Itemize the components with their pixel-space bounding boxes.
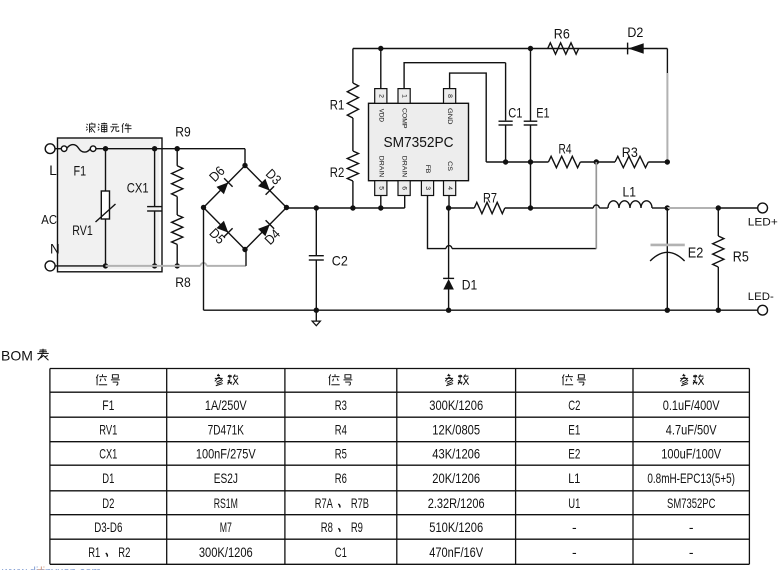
svg-text:C1: C1: [508, 105, 522, 120]
svg-text:C2: C2: [332, 253, 348, 269]
svg-text:470nF/16V: 470nF/16V: [429, 544, 483, 560]
svg-text:100uF/100V: 100uF/100V: [661, 446, 721, 462]
svg-text:5: 5: [377, 186, 384, 190]
svg-text:R9: R9: [175, 124, 191, 140]
svg-text:D3-D6: D3-D6: [94, 519, 122, 535]
svg-text:R8: R8: [321, 519, 333, 535]
svg-text:43K/1206: 43K/1206: [432, 446, 480, 462]
svg-text:6: 6: [401, 186, 408, 190]
svg-text:CX1: CX1: [127, 180, 149, 196]
svg-text:12K/0805: 12K/0805: [432, 422, 480, 438]
svg-text:AC: AC: [41, 212, 57, 227]
svg-text:1A/250V: 1A/250V: [205, 397, 247, 413]
svg-text:R7B: R7B: [351, 495, 369, 511]
svg-text:LED-: LED-: [748, 291, 774, 303]
svg-text:ES2J: ES2J: [214, 470, 238, 486]
svg-text:RV1: RV1: [99, 422, 117, 438]
svg-text:U1: U1: [568, 495, 580, 511]
svg-text:-: -: [572, 519, 577, 535]
svg-text:SM7352PC: SM7352PC: [384, 134, 454, 151]
svg-text:DRAIN: DRAIN: [401, 156, 408, 178]
svg-text:7D471K: 7D471K: [208, 422, 245, 438]
svg-text:L1: L1: [568, 470, 580, 486]
svg-text:2: 2: [377, 94, 384, 98]
svg-text:di: di: [36, 567, 45, 570]
svg-text:CS: CS: [446, 161, 453, 171]
svg-text:BOM: BOM: [1, 348, 33, 364]
svg-text:1: 1: [401, 94, 408, 98]
svg-text:L: L: [49, 163, 57, 178]
svg-text:R7A: R7A: [315, 495, 334, 511]
svg-text:C1: C1: [335, 544, 347, 560]
svg-text:R1: R1: [88, 544, 100, 560]
svg-text:R5: R5: [335, 446, 347, 462]
svg-text:8: 8: [446, 94, 453, 98]
svg-text:RV1: RV1: [72, 223, 93, 238]
svg-text:4: 4: [446, 186, 453, 190]
svg-text:LED+: LED+: [748, 217, 778, 229]
svg-text:F1: F1: [102, 397, 114, 413]
svg-text:-: -: [689, 544, 694, 560]
svg-text:-: -: [572, 544, 577, 560]
svg-text:R6: R6: [554, 26, 570, 42]
svg-text:DRAIN: DRAIN: [377, 156, 384, 178]
svg-text:D2: D2: [627, 24, 643, 40]
svg-text:R4: R4: [335, 422, 347, 438]
svg-text:4.7uF/50V: 4.7uF/50V: [666, 422, 717, 438]
svg-text:COMP: COMP: [401, 108, 408, 129]
svg-text:www.dianyuan.com: www.dianyuan.com: [1, 567, 101, 570]
svg-text:300K/1206: 300K/1206: [199, 544, 253, 560]
svg-text:3: 3: [424, 186, 431, 190]
svg-text:100nF/275V: 100nF/275V: [196, 446, 256, 462]
svg-text:C2: C2: [568, 397, 580, 413]
svg-text:R8: R8: [175, 274, 191, 290]
svg-text:D2: D2: [102, 495, 114, 511]
svg-text:510K/1206: 510K/1206: [429, 519, 483, 535]
svg-text:FB: FB: [424, 165, 431, 174]
svg-text:E1: E1: [568, 422, 580, 438]
svg-text:D1: D1: [462, 277, 478, 293]
svg-text:GND: GND: [446, 108, 453, 125]
svg-text:R1: R1: [330, 97, 345, 113]
svg-text:0.8mH-EPC13(5+5): 0.8mH-EPC13(5+5): [647, 470, 735, 486]
svg-text:R6: R6: [335, 470, 347, 486]
svg-text:VDD: VDD: [377, 109, 384, 123]
svg-text:R3: R3: [335, 397, 347, 413]
svg-text:L1: L1: [623, 184, 637, 200]
svg-text:R2: R2: [330, 164, 345, 180]
svg-text:R3: R3: [622, 144, 638, 160]
svg-text:R9: R9: [351, 519, 363, 535]
svg-text:CX1: CX1: [99, 446, 117, 462]
svg-text:N: N: [50, 242, 60, 257]
svg-text:E2: E2: [568, 446, 580, 462]
svg-text:M7: M7: [220, 519, 232, 535]
svg-text:0.1uF/400V: 0.1uF/400V: [663, 397, 720, 413]
svg-text:300K/1206: 300K/1206: [429, 397, 483, 413]
svg-text:R2: R2: [118, 544, 130, 560]
svg-text:RS1M: RS1M: [214, 495, 238, 511]
svg-text:D1: D1: [102, 470, 114, 486]
svg-text:-: -: [689, 519, 694, 535]
svg-text:E1: E1: [536, 105, 549, 120]
svg-text:2.32R/1206: 2.32R/1206: [428, 495, 485, 511]
svg-text:F1: F1: [74, 163, 87, 178]
svg-text:20K/1206: 20K/1206: [432, 470, 480, 486]
svg-text:R5: R5: [733, 250, 749, 266]
svg-text:R7: R7: [483, 190, 497, 206]
svg-text:R4: R4: [559, 141, 572, 157]
svg-text:SM7352PC: SM7352PC: [667, 495, 715, 511]
svg-text:E2: E2: [688, 246, 704, 262]
